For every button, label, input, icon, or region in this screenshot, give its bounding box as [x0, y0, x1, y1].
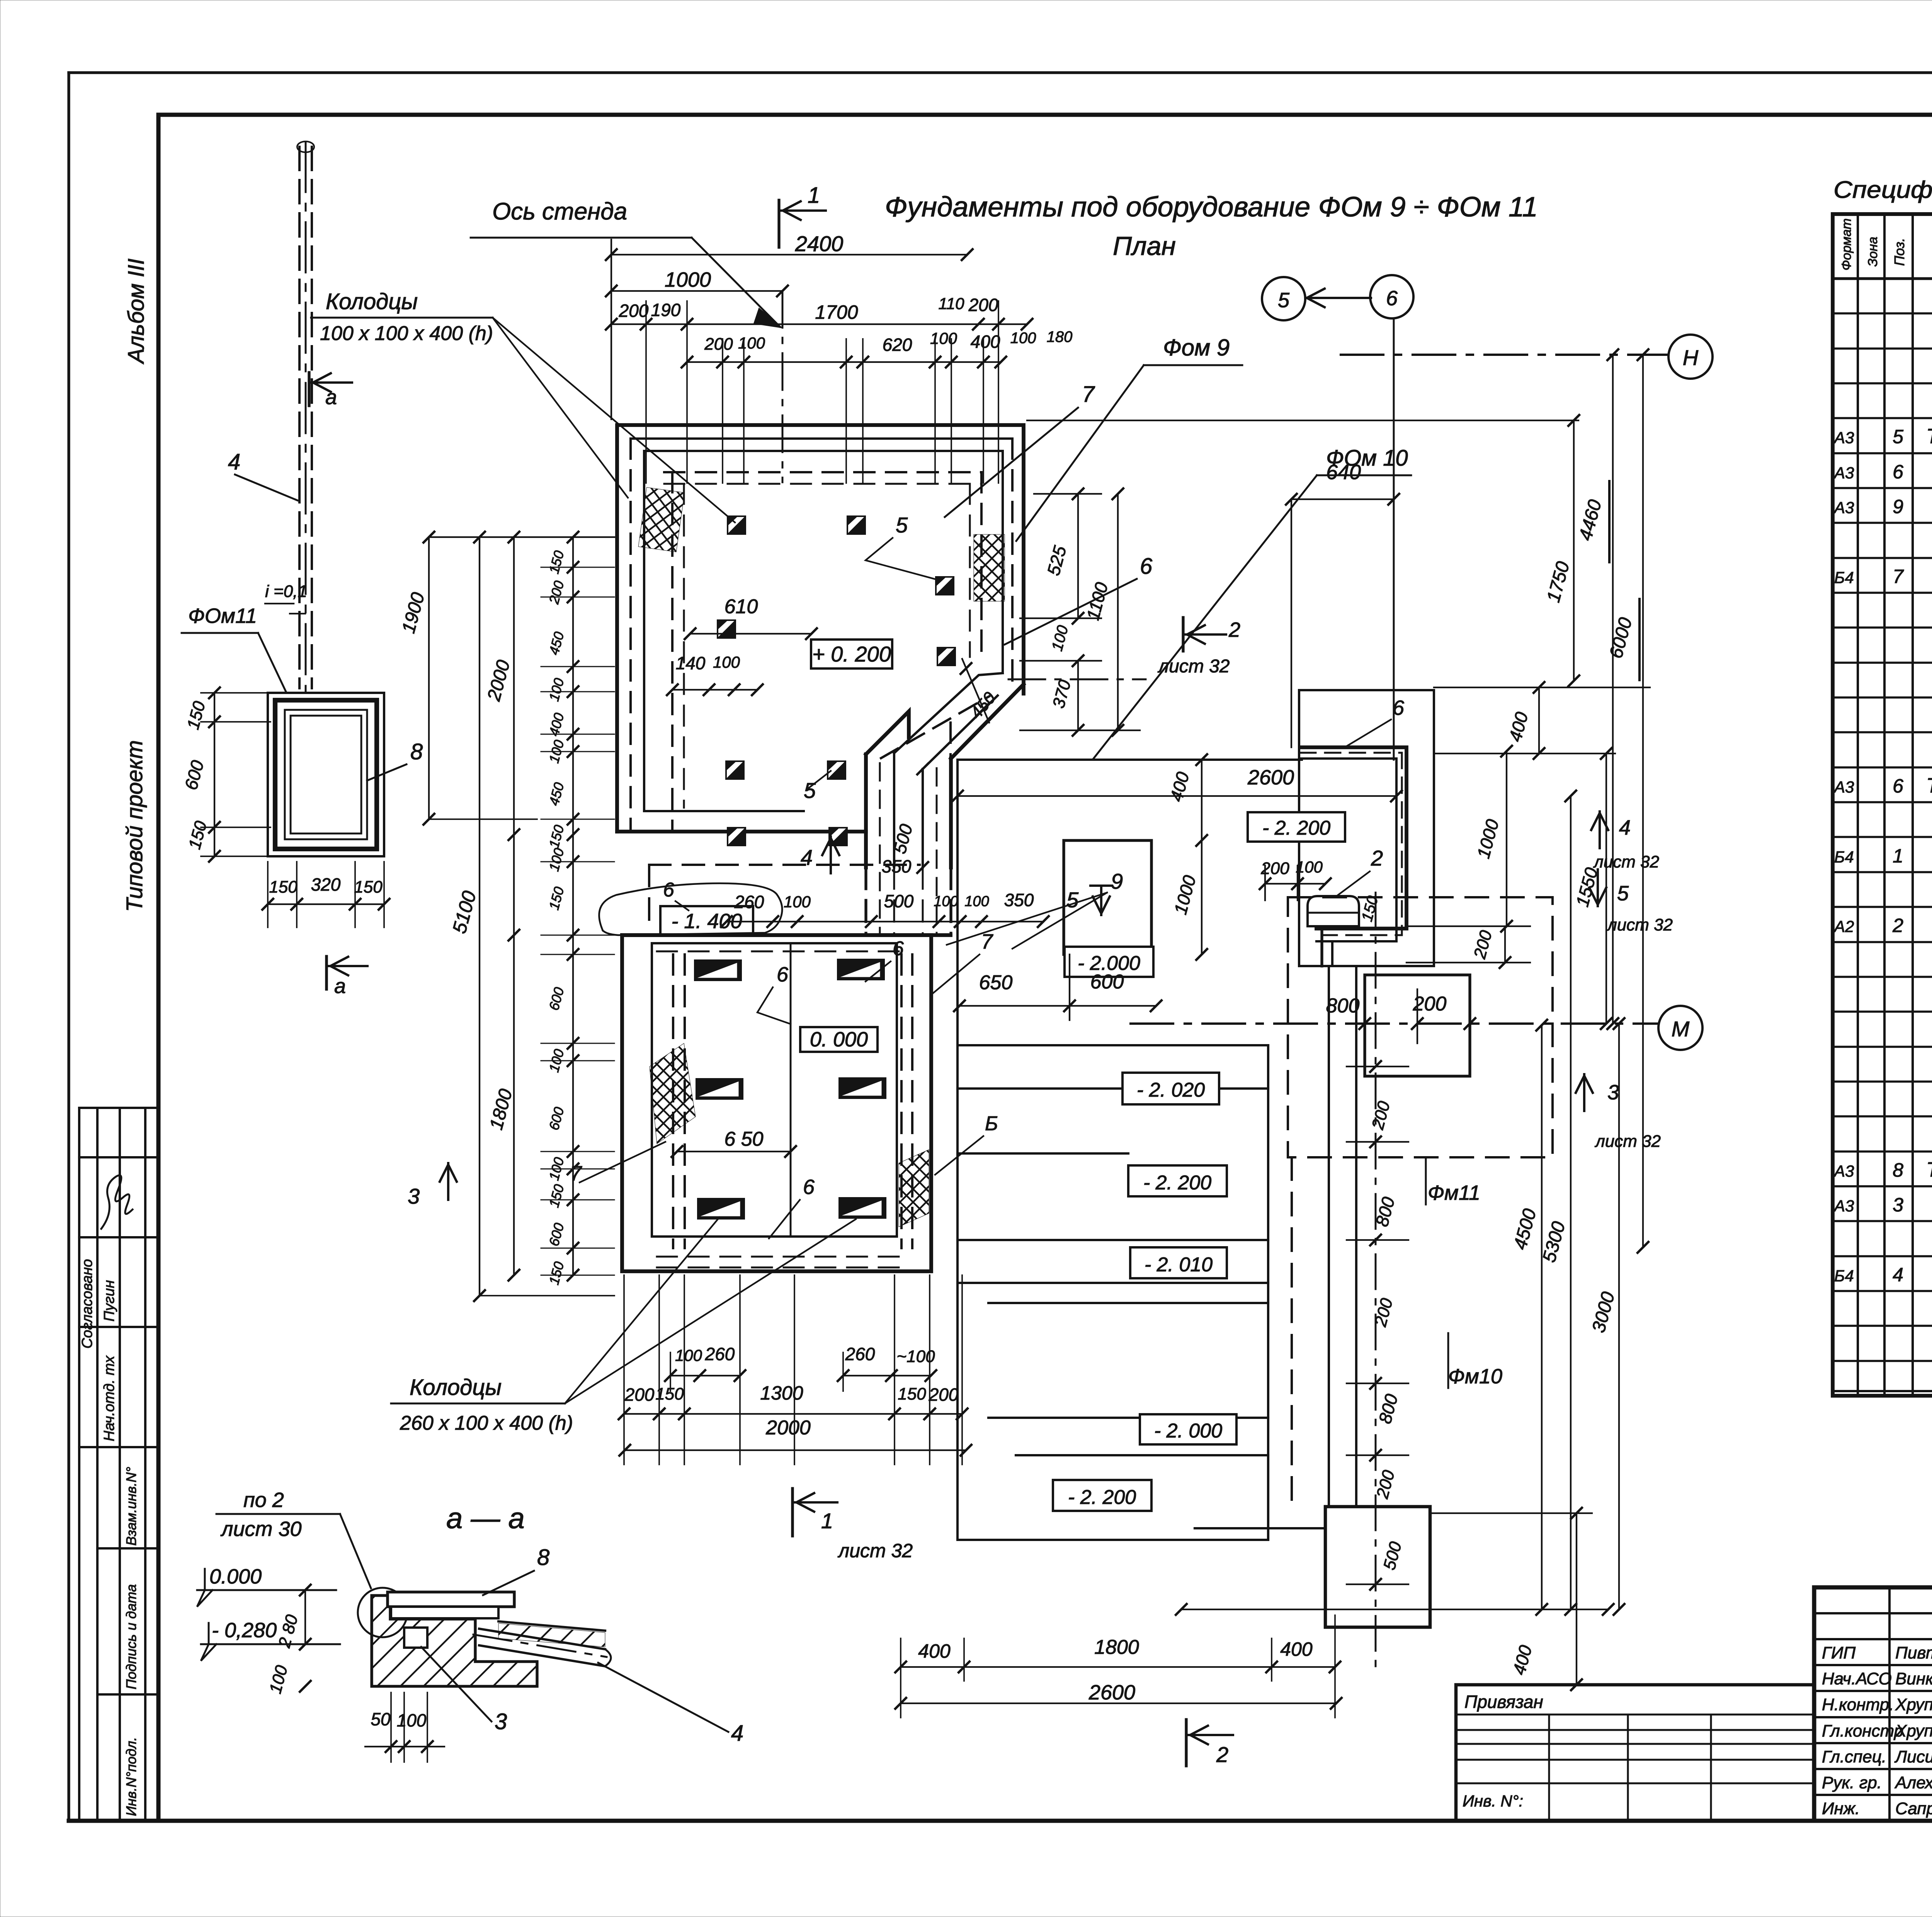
svg-text:Винклер: Винклер — [1895, 1669, 1932, 1688]
svg-text:А3: А3 — [1833, 1162, 1854, 1180]
FOm10 wall band — [1300, 747, 1406, 929]
svg-text:Фом 9: Фом 9 — [1163, 335, 1230, 361]
svg-text:5: 5 — [1066, 888, 1079, 912]
svg-text:350: 350 — [882, 856, 912, 876]
svg-text:100: 100 — [738, 334, 765, 352]
section mark a bottom — [325, 956, 328, 989]
lower foundation center divider — [790, 943, 792, 1237]
svg-text:2600: 2600 — [1088, 1681, 1135, 1704]
section mark 4 in strip — [830, 837, 832, 873]
pit internal steps horizontals — [957, 1044, 1268, 1046]
svg-text:260: 260 — [705, 1344, 735, 1364]
svg-text:4: 4 — [801, 845, 813, 869]
notch left diagonal from inner wall — [894, 673, 1003, 753]
svg-text:Инв.N°подл.: Инв.N°подл. — [123, 1737, 139, 1816]
svg-text:5: 5 — [1893, 426, 1903, 447]
svg-text:190: 190 — [651, 300, 681, 320]
section mark 2 bottom — [1185, 1720, 1187, 1766]
svg-text:Нач.отд. тх: Нач.отд. тх — [101, 1355, 117, 1441]
bottom long dimension line — [1181, 1609, 1608, 1610]
svg-text:150: 150 — [898, 1385, 926, 1403]
FOm9 diagonal notch outer right — [951, 684, 1024, 759]
svg-text:по 2: по 2 — [243, 1488, 284, 1512]
svg-text:Поз.: Поз. — [1891, 238, 1907, 266]
svg-text:9: 9 — [1893, 496, 1903, 517]
svg-text:Б: Б — [985, 1112, 998, 1135]
svg-text:Сапрощина: Сапрощина — [1895, 1799, 1932, 1818]
svg-text:6: 6 — [803, 1175, 815, 1199]
svg-text:2600: 2600 — [1247, 766, 1294, 789]
svg-text:6: 6 — [1893, 775, 1903, 797]
svg-text:400: 400 — [918, 1640, 951, 1662]
svg-text:0. 000: 0. 000 — [810, 1028, 868, 1051]
svg-text:Формат: Формат — [1839, 218, 1854, 270]
svg-text:Н: Н — [1683, 345, 1699, 370]
svg-text:- 2. 200: - 2. 200 — [1262, 817, 1330, 839]
svg-text:Нач.АСО: Нач.АСО — [1822, 1669, 1892, 1688]
svg-text:Колодцы: Колодцы — [326, 289, 418, 314]
central pit outline — [957, 760, 1302, 1540]
svg-text:- 2. 010: - 2. 010 — [1145, 1254, 1213, 1276]
svg-text:260: 260 — [845, 1344, 875, 1364]
svg-text:а — а: а — а — [446, 1502, 525, 1535]
section mark 3 left — [447, 1163, 449, 1200]
level boxes in pit — [1065, 947, 1153, 977]
dashed excavation rect Fm11 — [1288, 897, 1553, 1157]
svg-text:Рук. гр.: Рук. гр. — [1822, 1773, 1882, 1792]
left stamp strip grid — [79, 1107, 158, 1109]
svg-text:- 0,280: - 0,280 — [212, 1619, 277, 1642]
svg-text:1800: 1800 — [1094, 1636, 1139, 1658]
svg-text:лист 32: лист 32 — [1157, 656, 1230, 677]
trench vertical lines — [1328, 966, 1330, 1507]
section mark 5 down near pit — [1090, 885, 1112, 887]
svg-text:а: а — [334, 975, 346, 998]
svg-text:1000: 1000 — [665, 268, 711, 291]
FOm10 pipe below — [1320, 929, 1323, 966]
section concrete block — [372, 1596, 537, 1686]
FOm9 inner wall edge — [644, 451, 1003, 811]
section pipe item 4 — [479, 1629, 605, 1649]
svg-text:Пивторак: Пивторак — [1895, 1643, 1932, 1662]
bottom band inner line — [652, 1235, 897, 1238]
section mark 1 top — [777, 200, 780, 247]
node circle — [358, 1588, 407, 1637]
svg-text:i =0,1: i =0,1 — [265, 582, 307, 601]
svg-text:1: 1 — [808, 183, 820, 208]
svg-text:Типовой проект: Типовой проект — [122, 740, 147, 912]
spec table grid — [1833, 214, 1932, 1396]
column axes circles 5 6 — [1262, 277, 1305, 320]
lower foundation inner wall — [652, 943, 897, 1237]
horizontal connector lines left chains — [429, 536, 614, 538]
svg-text:6: 6 — [1386, 287, 1398, 310]
svg-text:ФОм 10: ФОм 10 — [1326, 446, 1408, 471]
svg-text:4: 4 — [731, 1721, 743, 1746]
svg-text:100: 100 — [675, 1346, 702, 1364]
FOm10 outer rect — [1299, 690, 1434, 966]
svg-text:110: 110 — [939, 294, 965, 313]
middle strip dashed boundaries — [622, 933, 951, 937]
steel plates rows — [695, 960, 741, 980]
svg-text:4: 4 — [228, 449, 240, 475]
svg-text:- 2. 000: - 2. 000 — [1154, 1420, 1222, 1442]
svg-text:1: 1 — [1893, 845, 1903, 867]
svg-text:- 2. 020: - 2. 020 — [1137, 1079, 1205, 1101]
FOm9 bottom thick line strip top — [617, 830, 866, 833]
svg-text:лист 32: лист 32 — [1606, 915, 1673, 934]
svg-text:140: 140 — [676, 653, 706, 673]
svg-text:Колодцы: Колодцы — [410, 1375, 502, 1400]
svg-text:100: 100 — [934, 893, 958, 910]
svg-text:7: 7 — [1893, 566, 1904, 587]
svg-text:ФОм11: ФОм11 — [188, 604, 257, 628]
svg-text:2: 2 — [1371, 846, 1383, 870]
svg-text:Зона: Зона — [1866, 237, 1880, 267]
svg-text:лист 30: лист 30 — [220, 1517, 302, 1541]
section mark 3 right — [1583, 1074, 1585, 1111]
svg-text:5: 5 — [1617, 882, 1629, 905]
svg-text:Фундаменты под оборудование: Фундаменты под оборудование ФОм 9 ÷ ФОм … — [885, 192, 1538, 223]
axis 6 vertical line — [1393, 318, 1395, 760]
FOm9 hatch right side — [974, 534, 1005, 601]
svg-text:6: 6 — [1140, 554, 1153, 579]
lower foundation dashed wall centerlines — [676, 934, 906, 1260]
level box 0.000 — [800, 1027, 878, 1052]
pit right edge — [1267, 1045, 1269, 1540]
svg-text:1300: 1300 — [760, 1382, 803, 1404]
svg-text:2: 2 — [1228, 618, 1240, 641]
channel left wall inner — [893, 753, 895, 867]
svg-text:100: 100 — [930, 329, 957, 347]
svg-text:600: 600 — [1090, 971, 1124, 993]
svg-text:100: 100 — [713, 653, 740, 671]
item 4 vertical rod — [298, 147, 301, 688]
svg-text:1: 1 — [821, 1509, 833, 1533]
svg-text:100: 100 — [784, 893, 811, 911]
FOm9 inner wall bottom edge — [644, 810, 804, 812]
svg-text:400: 400 — [1280, 1638, 1313, 1660]
svg-text:8: 8 — [1893, 1159, 1903, 1181]
projection verticals bottom — [623, 1275, 625, 1465]
channel left wall outer — [864, 754, 868, 867]
lower foundation hatch right — [899, 1150, 929, 1227]
svg-text:4: 4 — [1893, 1264, 1903, 1286]
svg-text:Б4: Б4 — [1834, 848, 1854, 866]
svg-text:320: 320 — [311, 874, 341, 895]
svg-text:260: 260 — [734, 892, 764, 912]
FOm9 hatch top-left — [638, 487, 685, 552]
svg-text:3: 3 — [495, 1709, 507, 1734]
svg-text:5: 5 — [1278, 289, 1290, 312]
svg-text:А2: А2 — [1833, 917, 1854, 936]
FOm11 detail dims 150 600 150 — [214, 693, 215, 856]
band dashed centerline — [881, 696, 989, 758]
FOm11 detail frame — [268, 693, 384, 856]
svg-text:ТП503-4-35.8Б: ТП503-4-35.8Б — [1926, 774, 1932, 797]
item 2 trough detail — [1308, 896, 1359, 926]
svg-text:8: 8 — [410, 739, 423, 764]
svg-text:Пугин: Пугин — [101, 1280, 117, 1322]
inner thick frame top — [158, 113, 1932, 117]
svg-text:180: 180 — [1047, 328, 1073, 345]
channel right wall inner — [922, 769, 924, 867]
svg-text:650: 650 — [979, 971, 1013, 994]
notch inner right diagonal — [923, 696, 998, 769]
svg-text:150: 150 — [269, 878, 298, 896]
svg-text:1700: 1700 — [815, 301, 858, 323]
title block signature columns — [1888, 1587, 1891, 1821]
privyazan box — [1456, 1685, 1814, 1821]
outer thin page border — [69, 71, 1932, 74]
section marks 4 5 right with list32 — [1599, 811, 1601, 848]
level box -2.200 upper — [1248, 812, 1345, 842]
svg-text:6: 6 — [777, 963, 789, 986]
svg-text:6 50: 6 50 — [724, 1128, 763, 1150]
svg-text:500: 500 — [884, 891, 914, 911]
svg-text:7: 7 — [1082, 382, 1095, 407]
svg-text:620: 620 — [883, 335, 912, 355]
svg-text:А3: А3 — [1833, 498, 1854, 517]
tall inner rect -2.000 — [1064, 840, 1151, 954]
svg-text:100: 100 — [397, 1710, 427, 1730]
svg-text:а: а — [325, 386, 337, 409]
svg-text:ТП503-4-35.8Б-: ТП503-4-35.8Б- — [1926, 1158, 1932, 1181]
section mark 2 left — [1182, 617, 1184, 651]
section top slab item 8 — [388, 1592, 514, 1607]
channel wall dashed centerlines — [879, 763, 881, 935]
svg-text:5: 5 — [804, 778, 816, 803]
trench axis dash-dot — [1375, 893, 1377, 1673]
left fine chain with small dims — [572, 537, 574, 1275]
svg-text:ТП503-4-35.8Б: ТП503-4-35.8Б — [1926, 425, 1932, 448]
lower foundation hatch left — [650, 1043, 696, 1144]
svg-text:8: 8 — [537, 1545, 549, 1570]
svg-text:Гл.констр: Гл.констр — [1822, 1721, 1903, 1740]
svg-text:350: 350 — [1004, 890, 1034, 910]
inner thick frame left — [156, 115, 161, 1821]
section anchor recess — [404, 1628, 427, 1648]
svg-text:3: 3 — [1893, 1194, 1903, 1216]
svg-text:2: 2 — [1892, 915, 1903, 936]
svg-text:Инв. N°:: Инв. N°: — [1463, 1792, 1523, 1810]
svg-text:3: 3 — [1607, 1081, 1619, 1104]
svg-text:Ось стенда: Ось стенда — [492, 198, 627, 225]
svg-text:800: 800 — [1326, 995, 1360, 1017]
svg-text:Гл.спец.: Гл.спец. — [1822, 1747, 1886, 1766]
projection verticals from chains — [645, 301, 647, 483]
svg-text:6: 6 — [1893, 461, 1903, 483]
svg-text:Хрупало: Хрупало — [1895, 1721, 1932, 1740]
svg-text:100 х 100 х 400 (h): 100 х 100 х 400 (h) — [320, 322, 493, 345]
svg-text:3: 3 — [408, 1184, 420, 1208]
svg-text:Согласовано: Согласовано — [79, 1259, 95, 1349]
svg-text:2000: 2000 — [765, 1417, 811, 1439]
section mark 1 bottom — [791, 1488, 794, 1536]
svg-text:- 2. 200: - 2. 200 — [1068, 1486, 1136, 1509]
svg-text:лист 32: лист 32 — [1593, 852, 1659, 871]
svg-text:50: 50 — [371, 1709, 391, 1729]
level box -1.400 with cloud — [660, 906, 753, 935]
svg-text:ГИП: ГИП — [1822, 1643, 1855, 1662]
band corner axis dash-dot — [1009, 679, 1146, 680]
svg-text:А3: А3 — [1833, 1197, 1854, 1215]
svg-text:А3: А3 — [1833, 464, 1854, 482]
svg-text:100: 100 — [1296, 858, 1323, 876]
svg-text:Фм10: Фм10 — [1448, 1365, 1502, 1388]
anchor square wells — [728, 516, 745, 534]
svg-text:+ 0. 200: + 0. 200 — [812, 642, 891, 666]
svg-text:Алехова: Алехова — [1894, 1773, 1932, 1792]
svg-text:6: 6 — [893, 937, 904, 960]
svg-text:Б4: Б4 — [1834, 568, 1854, 587]
svg-text:0.000: 0.000 — [209, 1565, 262, 1588]
svg-text:100: 100 — [964, 893, 989, 910]
FOm0 lower foundation outer walls — [622, 935, 931, 1271]
svg-text:400: 400 — [971, 332, 1000, 352]
svg-text:4: 4 — [1619, 816, 1631, 839]
svg-text:Подпись и дата: Подпись и дата — [123, 1584, 139, 1689]
bottom block — [1325, 1507, 1430, 1627]
svg-text:Б4: Б4 — [1834, 1267, 1854, 1285]
svg-text:Взам.инв.N°: Взам.инв.N° — [123, 1467, 139, 1546]
title block frame — [1814, 1587, 1932, 1821]
svg-text:План: План — [1113, 231, 1176, 261]
svg-text:2400: 2400 — [795, 231, 844, 256]
notch outer left diagonal mitre — [866, 711, 909, 754]
Fm11 block — [1365, 975, 1470, 1076]
svg-text:6: 6 — [663, 879, 674, 901]
svg-text:М: М — [1672, 1017, 1690, 1041]
axis M dash-dot line — [1131, 1022, 1658, 1025]
svg-text:Н.контр.: Н.контр. — [1822, 1695, 1894, 1714]
svg-text:А3: А3 — [1833, 429, 1854, 447]
FOm9 wall dashed centerlines — [631, 437, 1012, 440]
section mark a top — [308, 373, 310, 406]
stamp signature scribble — [101, 1175, 133, 1229]
svg-text:Хрупало: Хрупало — [1895, 1695, 1932, 1714]
svg-text:Привязан: Привязан — [1464, 1692, 1543, 1712]
svg-text:А3: А3 — [1833, 778, 1854, 796]
svg-text:200: 200 — [968, 295, 998, 315]
FOm9 outer boundary — [617, 425, 1024, 832]
FOm11 detail dims 150 320 150 — [268, 903, 384, 905]
svg-text:200: 200 — [624, 1385, 655, 1405]
svg-text:лист 32: лист 32 — [1594, 1132, 1661, 1151]
svg-text:- 2. 200: - 2. 200 — [1143, 1172, 1211, 1194]
svg-text:5: 5 — [896, 513, 908, 537]
svg-text:100: 100 — [1010, 330, 1036, 347]
svg-text:150: 150 — [354, 878, 383, 896]
ground hatch right of block — [498, 1623, 605, 1647]
channel right wall outer — [949, 759, 953, 867]
svg-text:200: 200 — [704, 335, 733, 354]
svg-text:Альбом III: Альбом III — [124, 259, 149, 364]
svg-text:260 х 100 х 400 (h): 260 х 100 х 400 (h) — [400, 1412, 573, 1434]
svg-text:200: 200 — [929, 1385, 959, 1405]
svg-text:2: 2 — [1216, 1742, 1228, 1767]
axis M circle — [1658, 1006, 1702, 1050]
svg-text:610: 610 — [724, 595, 758, 618]
level box +0.200 — [811, 640, 892, 668]
axis H circle — [1668, 335, 1713, 379]
stand axis vertical — [782, 291, 784, 482]
svg-text:Инж.: Инж. — [1822, 1799, 1860, 1818]
svg-text:Спецификация фундаментов под: Спецификация фундаментов под оборудовани… — [1833, 177, 1932, 203]
svg-text:Фм11: Фм11 — [1428, 1181, 1480, 1204]
svg-text:Лисичкин: Лисичкин — [1894, 1747, 1932, 1766]
svg-text:200: 200 — [619, 301, 649, 321]
svg-text:9: 9 — [1111, 869, 1123, 893]
svg-text:лист 32: лист 32 — [837, 1540, 913, 1561]
axis H dash-dot line — [1341, 354, 1668, 356]
